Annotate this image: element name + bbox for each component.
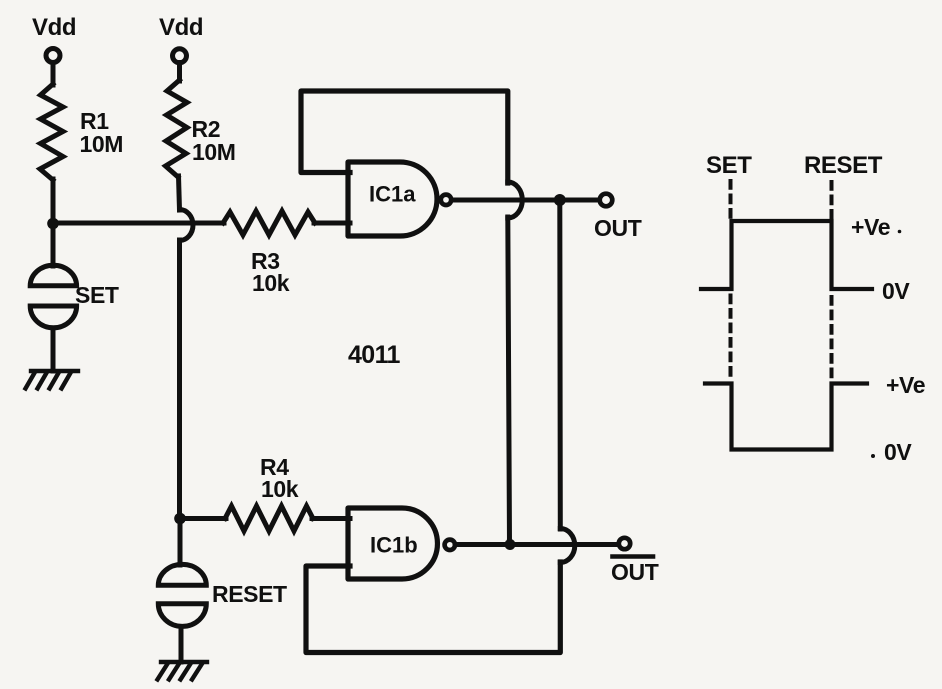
svg-text:IC1a: IC1a	[369, 182, 416, 207]
timing dashed line SET upper	[729, 181, 733, 218]
waveform OUT trace	[701, 221, 872, 289]
label OUT bar	[611, 557, 659, 586]
terminal OUT circle	[600, 194, 613, 207]
svg-text:IC1b: IC1b	[370, 533, 418, 558]
svg-text:RESET: RESET	[212, 581, 287, 607]
label R2 10M	[192, 116, 236, 165]
resistor R3	[223, 211, 315, 235]
svg-text:10M: 10M	[192, 139, 236, 165]
wire feedback A down to node C	[508, 217, 510, 545]
wire hop feedback A over OUT wire	[508, 182, 523, 218]
svg-text:SET: SET	[706, 152, 752, 179]
wire node B to R4	[180, 516, 226, 521]
wire R3 to IC1a input	[314, 221, 350, 226]
svg-text:0V: 0V	[882, 278, 910, 304]
label R3 10k	[251, 248, 290, 296]
label 0V bottom	[871, 439, 912, 465]
svg-text:SET: SET	[75, 282, 119, 308]
wire R2 down to hop	[179, 176, 180, 210]
label R4 10k	[260, 454, 299, 502]
wire node B to RESET switch	[178, 519, 183, 566]
switch RESET pushbutton	[158, 564, 206, 626]
waveform OUT2 trace	[705, 384, 867, 450]
wire hop feedback B over OUT2 wire	[560, 529, 574, 563]
ground (SET)	[26, 371, 79, 389]
svg-text:10k: 10k	[252, 270, 290, 296]
wire RESET to ground	[179, 627, 184, 663]
wire IC1b output to OUT2	[455, 542, 617, 547]
wire IC1a feedback loop top (input 1 to node C via top)	[301, 91, 508, 183]
wire feedback B to IC1b input 2 (bottom loop)	[306, 562, 560, 653]
wire Vdd1 to R1	[51, 63, 56, 86]
wire main horizontal node A to R3	[53, 221, 224, 226]
resistor R2	[166, 80, 188, 177]
wire node A to SET switch	[51, 223, 56, 266]
wire R2 line down to node B	[177, 240, 182, 519]
svg-text:4011: 4011	[348, 341, 401, 369]
wire Vdd2 to R2	[177, 63, 182, 82]
bubble IC1a output	[441, 195, 451, 205]
resistor R4	[225, 506, 313, 531]
svg-text:OUT: OUT	[594, 215, 642, 241]
node OUT junction dot	[554, 194, 566, 206]
svg-text:Vdd: Vdd	[159, 14, 203, 41]
resistor R1	[40, 84, 63, 180]
svg-text:10M: 10M	[80, 131, 124, 157]
node C junction dot	[505, 539, 516, 550]
svg-text:0V: 0V	[884, 439, 912, 465]
op IC1b NAND gate	[348, 508, 437, 579]
wire hop R2 line over horizontal wire	[180, 210, 194, 241]
timing dashed line RESET middle	[830, 297, 834, 378]
svg-text:RESET: RESET	[804, 152, 883, 179]
terminal Vdd right circle	[173, 49, 187, 63]
svg-text:+Ve: +Ve	[886, 372, 925, 398]
timing dashed line RESET upper	[830, 182, 834, 218]
switch SET pushbutton	[30, 265, 76, 328]
wire R4 to IC1b input 1	[312, 516, 350, 521]
node B junction dot	[174, 513, 186, 525]
terminal OUT2 circle	[619, 538, 630, 549]
wire SET to ground	[51, 328, 56, 371]
terminal Vdd left circle	[46, 49, 60, 63]
bubble IC1b output	[445, 540, 455, 550]
svg-text:OUT: OUT	[611, 559, 659, 585]
label R1 10M	[80, 108, 124, 157]
svg-text:Vdd: Vdd	[32, 14, 76, 41]
svg-text:10k: 10k	[261, 476, 299, 502]
wire R1 to node A	[51, 179, 56, 223]
wire feedback B from OUT node down to hop	[557, 200, 563, 529]
ground (RESET)	[158, 662, 208, 680]
wire IC1a output to OUT	[452, 198, 599, 203]
node A junction dot	[47, 218, 59, 230]
timing dashed line SET middle	[729, 296, 733, 379]
timing diagram labels SET RESET	[706, 152, 883, 179]
op IC1a NAND gate	[348, 162, 437, 236]
svg-text:+Ve: +Ve	[851, 214, 890, 240]
